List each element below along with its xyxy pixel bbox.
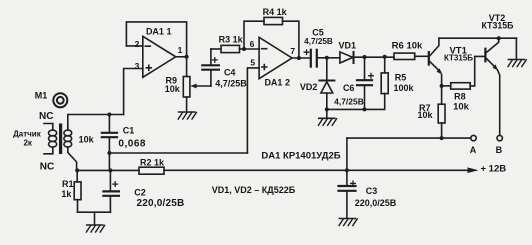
svg-text:R1: R1: [62, 179, 74, 189]
wire C6/R5 bottom: [327, 94, 385, 110]
capacitor C6: [357, 57, 373, 109]
svg-text:4,7/25В: 4,7/25В: [334, 97, 364, 107]
svg-text:C4: C4: [224, 68, 236, 78]
op-amp DA1.1: [143, 36, 176, 77]
resistor R4 feedback: [244, 17, 299, 58]
svg-text:10k: 10k: [165, 84, 181, 94]
svg-text:NC: NC: [39, 111, 53, 122]
terminal B: [497, 135, 502, 140]
minus sign DA1.1: [145, 45, 150, 47]
arrowhead +12V: [468, 167, 479, 173]
svg-text:R8: R8: [454, 91, 466, 101]
wire pin 6 of DA1.2: [244, 48, 259, 50]
svg-text:4,7/25В: 4,7/25В: [215, 79, 247, 89]
terminal A: [471, 135, 476, 140]
svg-text:100k: 100k: [393, 83, 414, 93]
svg-text:+ 12В: + 12В: [481, 163, 507, 174]
diode VD2: [319, 58, 334, 118]
resistor R5: [381, 57, 388, 94]
svg-text:3: 3: [135, 61, 140, 71]
plus sign DA1.1: [146, 65, 151, 70]
node C6 bottom: [363, 107, 367, 111]
svg-text:C3: C3: [366, 186, 378, 196]
svg-text:DA1 2: DA1 2: [264, 77, 290, 87]
svg-text:A: A: [470, 145, 477, 155]
svg-text:5: 5: [250, 57, 255, 67]
capacitor C1: [102, 115, 117, 154]
wire C5 to VD1: [318, 57, 340, 59]
node supply C3: [345, 168, 349, 172]
capacitor C3: [339, 170, 356, 217]
node R7 bottom: [440, 136, 444, 140]
node C1 top: [107, 113, 111, 117]
supply rail +12V: [77, 169, 139, 171]
resistor R8: [442, 56, 485, 89]
op-amp DA1.1 feedback wire: [126, 22, 186, 57]
svg-text:C6: C6: [343, 83, 355, 93]
node C1 bottom: [107, 151, 111, 155]
node VD2 bottom: [325, 107, 329, 111]
svg-text:6: 6: [250, 39, 255, 49]
wire bottom bus R1 C2: [78, 211, 111, 213]
svg-text:КТ315Б: КТ315Б: [482, 21, 515, 31]
capacitor C2: [103, 170, 119, 212]
svg-text:2: 2: [135, 39, 140, 49]
arrowhead wiper: [190, 84, 196, 89]
svg-text:R4 1k: R4 1k: [263, 7, 288, 17]
svg-text:R6 10k: R6 10k: [392, 41, 423, 52]
svg-text:R2 1k: R2 1k: [140, 157, 165, 167]
node supply left: [75, 168, 79, 172]
wire C1 node down to rail: [108, 153, 110, 170]
node DA1.1 output: [185, 55, 189, 59]
ground under bus: [86, 212, 104, 232]
capacitor C4: [202, 49, 219, 86]
svg-text:1k: 1k: [61, 189, 72, 199]
svg-text:1: 1: [178, 45, 183, 55]
wire DA1.2 output: [292, 57, 310, 59]
svg-text:7: 7: [290, 46, 295, 56]
svg-text:R5: R5: [395, 73, 407, 83]
wire DA1.1 output: [176, 56, 187, 58]
wire pin 3 of DA1.1: [124, 69, 143, 115]
svg-text:КТ315Б: КТ315Б: [444, 53, 473, 62]
svg-text:R3 1k: R3 1k: [219, 34, 244, 44]
svg-text:4,7/25В: 4,7/25В: [304, 37, 333, 46]
microphone M1: [53, 93, 67, 107]
svg-text:Датчик: Датчик: [13, 129, 42, 138]
node VT1 emitter: [440, 84, 444, 88]
svg-text:VD1, VD2 – КД522Б: VD1, VD2 – КД522Б: [212, 185, 296, 195]
svg-text:C5: C5: [312, 27, 324, 37]
node VT2 collector: [497, 36, 501, 40]
resistor R2: [139, 167, 164, 174]
wire output down to R9: [186, 57, 188, 77]
wire pin 2 of DA1.1: [126, 45, 142, 47]
svg-text:10k: 10k: [417, 110, 433, 120]
svg-text:DA1 1: DA1 1: [146, 27, 172, 37]
svg-text:220,0/25В: 220,0/25В: [137, 198, 185, 209]
transistor VT1: [428, 38, 442, 86]
transformer T1 secondary winding: [64, 127, 72, 147]
transistor VT2: [484, 38, 499, 135]
supply rail continues: [164, 169, 468, 171]
node supply C2: [108, 168, 112, 172]
potentiometer R9: [183, 77, 190, 98]
svg-text:C1: C1: [123, 126, 135, 136]
transformer T1 primary winding: [44, 124, 57, 154]
wire C1 bottom to pin5: [109, 152, 247, 154]
node R5 top: [383, 55, 387, 59]
ground under VD2: [318, 118, 336, 125]
svg-text:VD1: VD1: [338, 41, 356, 51]
node C6 top: [363, 55, 367, 59]
wire collectors top: [439, 37, 517, 39]
minus sign DA1.2: [262, 48, 267, 50]
node DA1.2 output: [297, 56, 301, 60]
diode VD1: [340, 52, 394, 63]
wire R9 wiper arrow: [196, 85, 211, 87]
svg-text:NC: NC: [40, 162, 54, 173]
wire rail down to supply: [346, 138, 348, 170]
svg-text:DA1 КР1401УД2Б: DA1 КР1401УД2Б: [261, 151, 340, 162]
wire secondary top to pin3 column: [68, 115, 124, 131]
node VD2 branch: [325, 56, 329, 60]
ground under R9: [178, 112, 196, 119]
svg-text:C2: C2: [134, 188, 146, 198]
op-amp DA1.2: [259, 37, 292, 78]
wire output rail to A: [347, 137, 471, 139]
svg-text:B: B: [496, 145, 503, 155]
plus sign DA1.2: [262, 65, 267, 70]
svg-text:10k: 10k: [453, 101, 470, 112]
wire secondary bottom lead: [68, 147, 77, 170]
wire R9 bottom: [186, 97, 188, 111]
node pin6: [242, 47, 246, 51]
wire pin 5 of DA1.2: [247, 68, 259, 153]
capacitor C5: [304, 50, 317, 67]
resistor R7: [438, 86, 445, 138]
transformer T1 core: [59, 124, 62, 155]
resistor R3: [211, 45, 244, 52]
svg-text:10k: 10k: [79, 135, 95, 145]
svg-text:M1: M1: [35, 91, 48, 101]
ground under C3: [339, 219, 357, 226]
svg-text:0,068: 0,068: [118, 139, 146, 150]
svg-text:2к: 2к: [23, 139, 32, 148]
ground right of VT2: [508, 38, 526, 66]
resistor R1: [74, 170, 81, 212]
svg-text:220,0/25В: 220,0/25В: [355, 198, 397, 208]
resistor R6: [394, 53, 428, 59]
svg-text:VD2: VD2: [300, 82, 318, 92]
